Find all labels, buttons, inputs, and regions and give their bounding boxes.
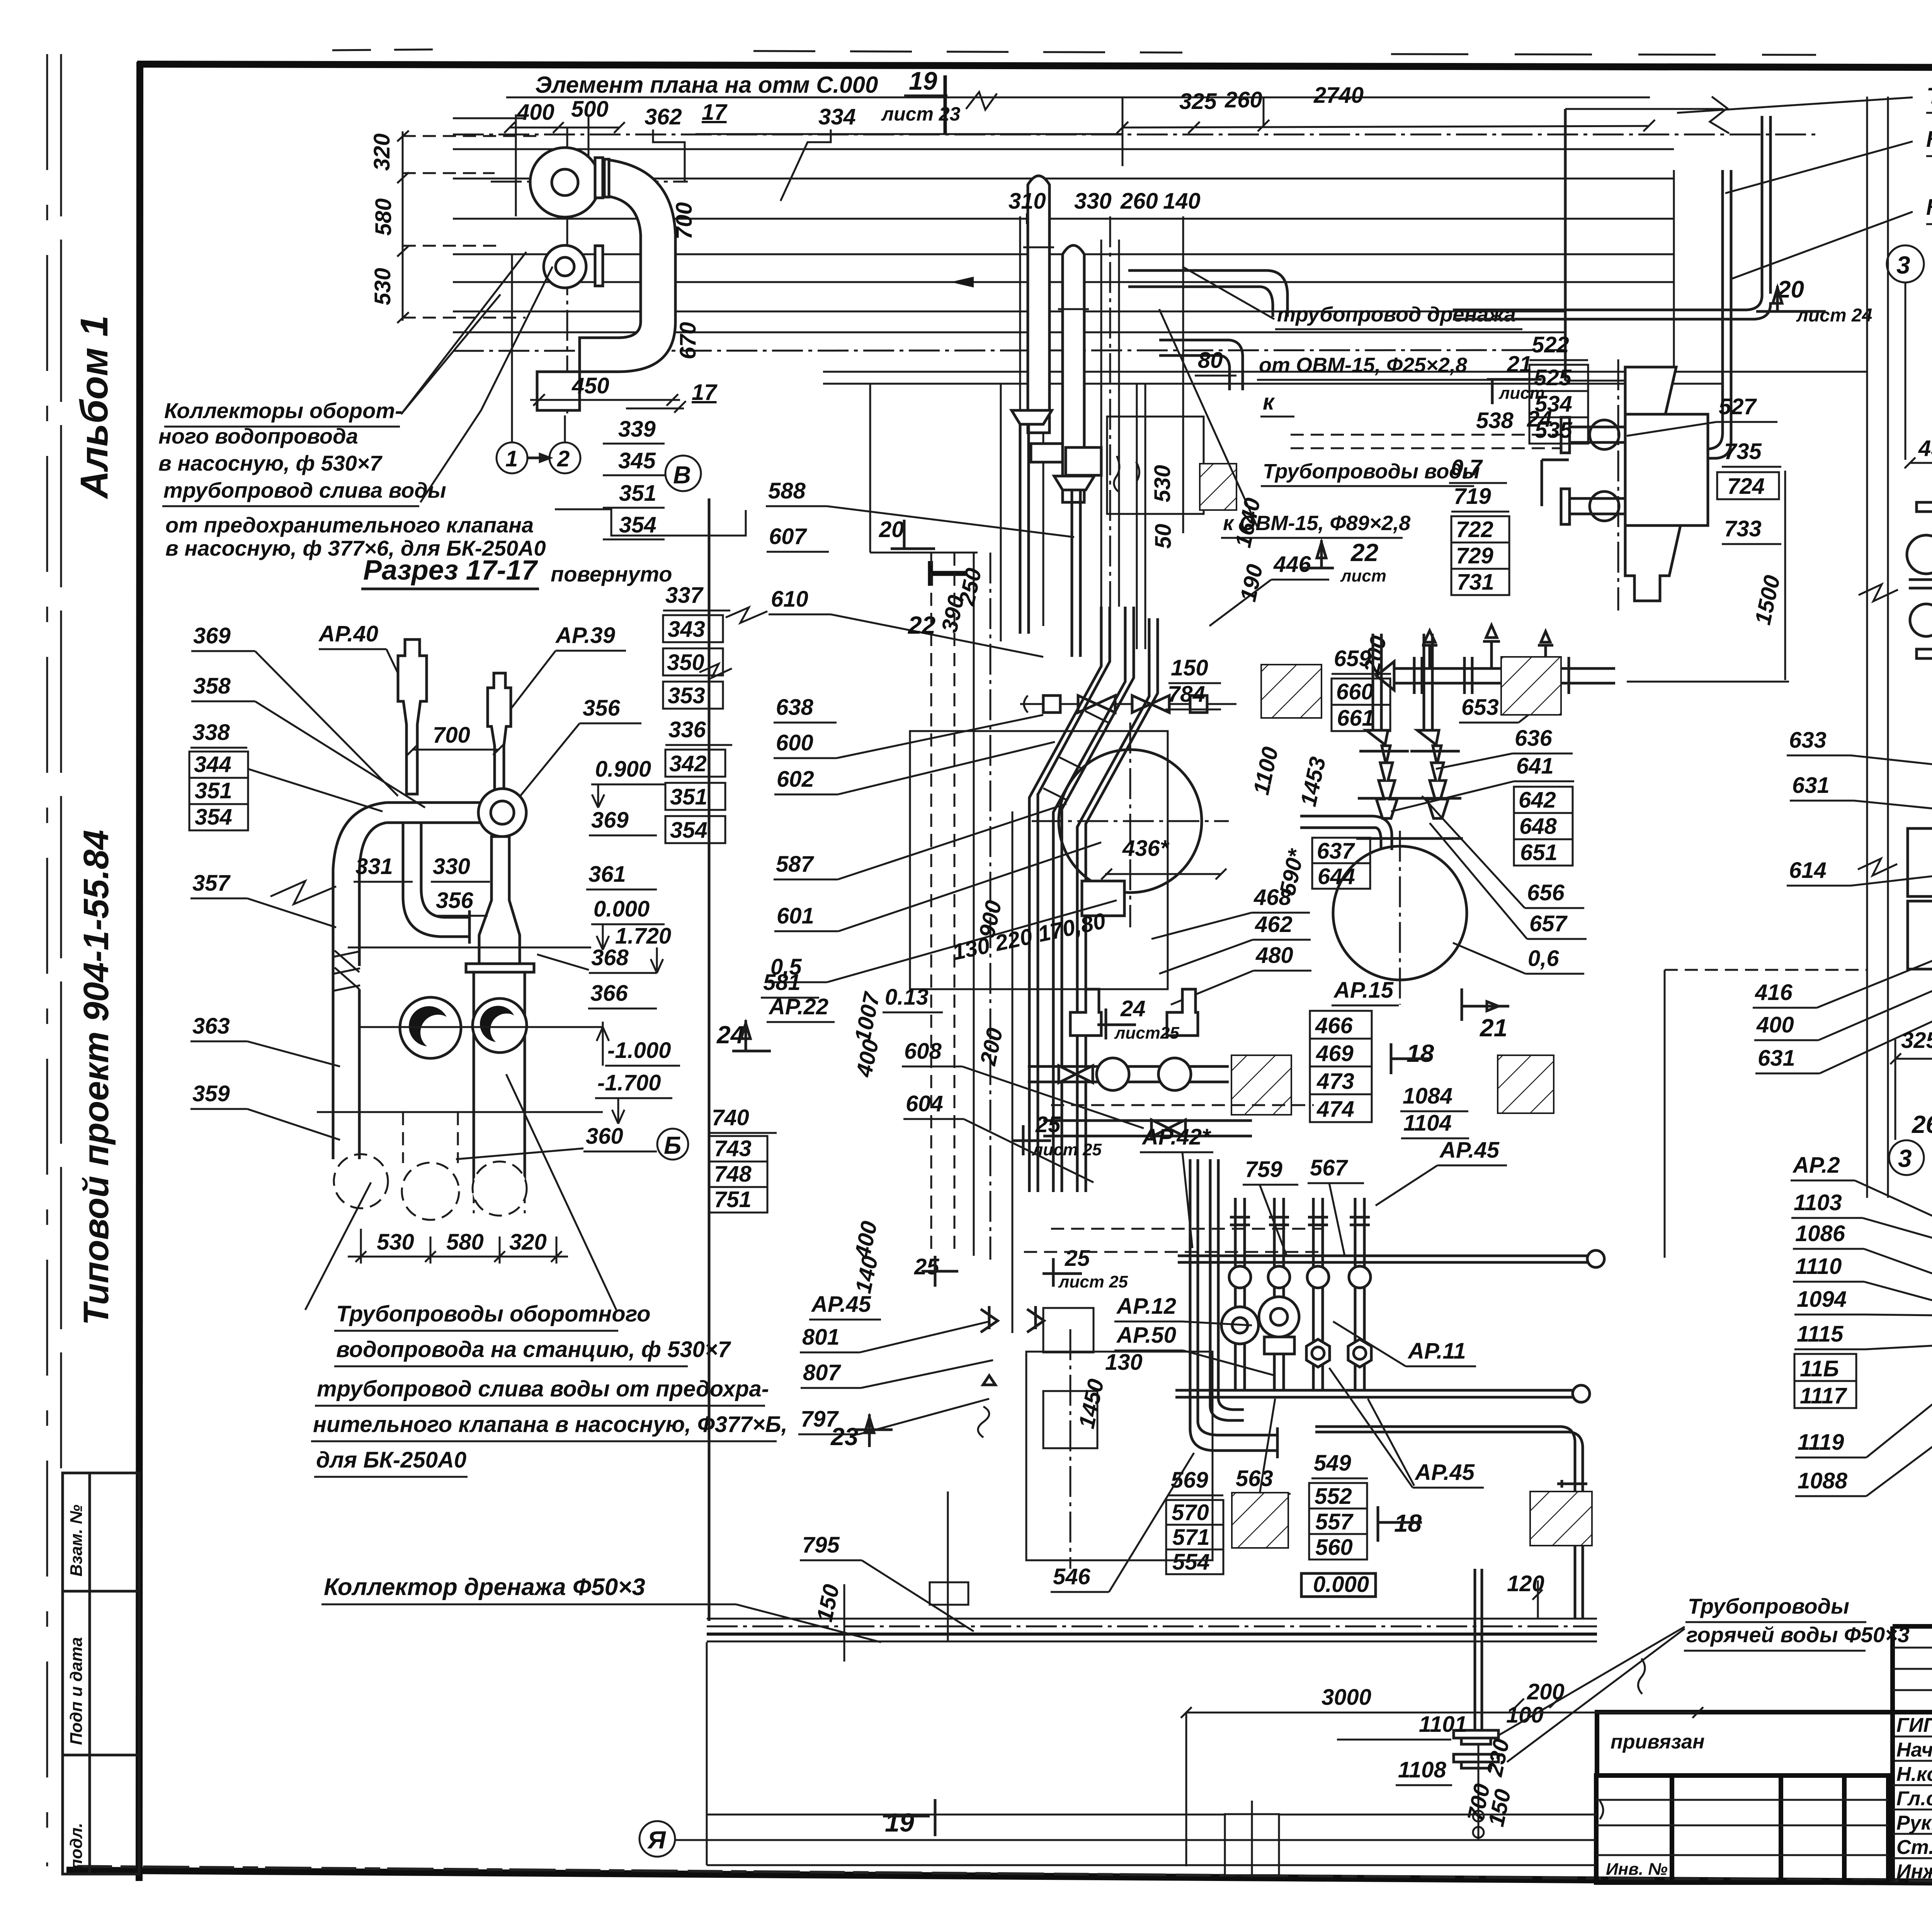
pump detail top-left [158, 128, 746, 560]
L pipe inner [1210, 1159, 1244, 1420]
manifold pipe2 [1175, 1390, 1577, 1397]
small valves on manifold [1422, 631, 1437, 668]
svg-text:26: 26 [1912, 1111, 1932, 1138]
drain collector band [707, 1618, 1597, 1620]
svg-text:Трубопроводы воды: Трубопроводы воды [1263, 460, 1480, 483]
grid bubble A [639, 1821, 675, 1857]
svg-text:привязан: привязан [1611, 1731, 1705, 1753]
section 17-17 [189, 555, 787, 1477]
svg-text:0.900: 0.900 [595, 757, 651, 782]
svg-text:18: 18 [1406, 1039, 1434, 1067]
riser capsule 1 [1028, 176, 1049, 433]
stamp upper strip rows [1893, 1647, 1932, 1649]
svg-text:17: 17 [702, 100, 728, 125]
svg-text:338: 338 [192, 720, 230, 745]
side rects [1908, 828, 1932, 896]
svg-text:325: 325 [1179, 89, 1217, 114]
svg-text:повернуто: повернуто [551, 562, 672, 586]
svg-text:331: 331 [355, 854, 393, 879]
svg-text:50: 50 [1151, 524, 1176, 549]
svg-text:670: 670 [675, 322, 701, 359]
svg-text:359: 359 [192, 1081, 230, 1106]
svg-text:631: 631 [1792, 773, 1830, 798]
dashed line runs [1291, 434, 1569, 436]
break mark [270, 881, 336, 904]
pipe left bottom [333, 1097, 359, 1159]
svg-text:656: 656 [1527, 880, 1565, 905]
svg-text:354: 354 [195, 804, 232, 830]
svg-text:от ОВМ-15, Ф25×2,8: от ОВМ-15, Ф25×2,8 [1259, 354, 1467, 377]
wavy W marks [1114, 456, 1139, 492]
lower ground line [317, 1111, 603, 1113]
svg-text:358: 358 [193, 673, 231, 699]
leader from 344 column [248, 769, 383, 811]
svg-text:522: 522 [1532, 332, 1569, 357]
svg-text:Трубопровод дренажа от ОВМ-: Трубопровод дренажа от ОВМ-15, Ф40×3 [1926, 83, 1932, 109]
hatch H0 [1200, 464, 1236, 510]
svg-text:642: 642 [1519, 787, 1556, 813]
svg-text:801: 801 [802, 1325, 840, 1350]
svg-text:588: 588 [768, 478, 806, 503]
svg-text:1115: 1115 [1797, 1321, 1844, 1347]
border top [137, 64, 1932, 69]
svg-text:740: 740 [712, 1105, 749, 1130]
dashed run mid [1051, 1104, 1314, 1106]
svg-text:351: 351 [670, 784, 707, 810]
svg-text:21: 21 [1507, 352, 1532, 377]
svg-text:357: 357 [192, 871, 231, 896]
mark 21 [1462, 988, 1509, 1021]
svg-text:подл.: подл. [67, 1823, 86, 1869]
svg-text:Коллекторы оборот-: Коллекторы оборот- [164, 398, 402, 423]
svg-text:651: 651 [1520, 840, 1558, 865]
header pipe horizontal [386, 803, 486, 823]
svg-text:АР.11: АР.11 [1407, 1338, 1466, 1364]
svg-text:Нач.отд.: Нач.отд. [1896, 1739, 1932, 1761]
svg-text:330: 330 [433, 854, 470, 879]
svg-text:337: 337 [665, 583, 704, 608]
svg-text:350: 350 [667, 650, 704, 675]
flange ticks on risers [1230, 1217, 1370, 1225]
title block [1596, 1582, 1932, 1883]
svg-text:360: 360 [586, 1124, 623, 1149]
line under title [506, 97, 1650, 99]
svg-text:2740: 2740 [1313, 83, 1364, 108]
svg-text:Я: Я [647, 1826, 666, 1854]
riser pipes thin [1100, 240, 1102, 607]
svg-text:190: 190 [1235, 562, 1268, 604]
grid bubble Z lower [1889, 1140, 1924, 1175]
svg-text:416: 416 [1755, 980, 1793, 1005]
wall step below band [555, 509, 746, 536]
OVM inlet pipes [1570, 427, 1625, 442]
left small valves column [981, 1306, 998, 1332]
svg-text:342: 342 [669, 751, 707, 776]
elbow flange [595, 158, 603, 198]
svg-text:20: 20 [879, 517, 904, 542]
leaders to labels [1677, 97, 1913, 113]
svg-text:641: 641 [1516, 753, 1554, 779]
grid bubble Z top [1887, 245, 1924, 282]
axis dash-dot [453, 134, 1816, 136]
svg-text:330: 330 [1074, 189, 1112, 214]
svg-text:1086: 1086 [1795, 1221, 1845, 1246]
big tank circle 2 [1333, 846, 1467, 980]
riser to OVM [1673, 170, 1731, 458]
small box on riser [930, 1582, 968, 1605]
crescent pipe right [473, 998, 527, 1053]
svg-text:1500: 1500 [1750, 573, 1785, 627]
axis bubbles 1 2 [497, 442, 527, 473]
svg-text:Б: Б [664, 1131, 681, 1159]
svg-text:580: 580 [446, 1230, 484, 1255]
svg-text:743: 743 [714, 1136, 752, 1161]
dim 450 [530, 399, 680, 401]
svg-text:19: 19 [885, 1808, 914, 1837]
right plan [1753, 97, 1932, 1198]
svg-text:-1.700: -1.700 [597, 1070, 661, 1095]
mid S pipe [403, 823, 469, 944]
svg-text:334: 334 [818, 104, 856, 129]
svg-text:600: 600 [776, 730, 813, 755]
svg-text:446: 446 [1273, 552, 1311, 577]
svg-text:0,6: 0,6 [1528, 946, 1559, 971]
svg-text:АР.22: АР.22 [768, 994, 828, 1019]
band right edges [1564, 109, 1567, 381]
svg-text:638: 638 [776, 695, 814, 720]
svg-text:АР.45: АР.45 [811, 1292, 871, 1317]
svg-text:АР.12: АР.12 [1116, 1294, 1176, 1319]
svg-text:356: 356 [583, 696, 621, 721]
svg-text:353: 353 [668, 683, 705, 708]
flange on riser [1557, 1480, 1587, 1488]
hex valves [1306, 1339, 1330, 1367]
svg-text:лист 23: лист 23 [881, 103, 961, 125]
svg-text:343: 343 [668, 617, 705, 642]
bottom zone [321, 1492, 1910, 1878]
svg-text:Инв. №: Инв. № [1606, 1860, 1668, 1879]
svg-text:в насосную, ф 530×7: в насосную, ф 530×7 [158, 451, 383, 475]
corner bracket [1542, 460, 1569, 506]
svg-text:24: 24 [1527, 406, 1552, 432]
svg-text:473: 473 [1316, 1069, 1354, 1094]
svg-text:719: 719 [1454, 484, 1491, 509]
svg-text:3000: 3000 [1321, 1685, 1371, 1710]
svg-text:140: 140 [1163, 189, 1201, 214]
svg-text:лист: лист [1340, 566, 1386, 585]
svg-text:325: 325 [1901, 1028, 1932, 1053]
svg-text:549: 549 [1314, 1451, 1351, 1476]
riser extensions down [1019, 424, 1022, 634]
svg-text:361: 361 [588, 862, 626, 887]
svg-text:724: 724 [1727, 474, 1765, 499]
svg-text:571: 571 [1172, 1525, 1210, 1550]
svg-text:661: 661 [1337, 706, 1374, 731]
dashed circles [334, 1154, 388, 1208]
labels 637 644 boxes [1312, 838, 1370, 863]
left margin [47, 54, 139, 1874]
svg-text:400: 400 [517, 100, 554, 125]
big left bend down [333, 803, 386, 1097]
riser capsule 2 [1063, 245, 1084, 502]
lower left table [1596, 1776, 1888, 1883]
pedestal rect [1225, 1814, 1279, 1875]
side rect on pipes [1082, 881, 1124, 916]
svg-text:0,7: 0,7 [1451, 455, 1483, 480]
svg-text:0.000: 0.000 [1313, 1572, 1369, 1597]
svg-text:729: 729 [1456, 543, 1493, 568]
top annotations [504, 66, 1932, 326]
svg-text:1: 1 [505, 446, 518, 471]
long pipes down left pair [1029, 607, 1110, 1192]
svg-text:400: 400 [851, 1037, 884, 1080]
svg-text:368: 368 [591, 945, 629, 970]
svg-text:436*: 436* [1122, 836, 1170, 861]
svg-text:748: 748 [714, 1162, 752, 1187]
svg-text:587: 587 [776, 852, 815, 877]
svg-text:22: 22 [1350, 539, 1378, 566]
svg-text:лист: лист [1498, 384, 1545, 403]
pump volute big [530, 148, 600, 217]
equipment boxes on risers [1031, 444, 1063, 462]
left stamp table [63, 1473, 139, 1874]
svg-text:Коллектор дренажа Ф50×3: Коллектор дренажа Ф50×3 [324, 1574, 645, 1600]
svg-text:320: 320 [509, 1230, 547, 1255]
svg-text:581: 581 [763, 970, 801, 995]
svg-text:608: 608 [904, 1039, 942, 1064]
svg-text:лист 25: лист 25 [1058, 1272, 1128, 1291]
elbow pipes to right [1128, 270, 1287, 317]
svg-text:351: 351 [619, 481, 656, 506]
svg-text:636: 636 [1515, 726, 1553, 751]
wide pipe down [474, 972, 525, 1190]
svg-text:735: 735 [1724, 439, 1762, 464]
svg-text:1100: 1100 [1248, 745, 1283, 797]
svg-text:351: 351 [195, 778, 232, 803]
svg-text:366: 366 [590, 981, 628, 1006]
pump axis horizontal [491, 181, 688, 183]
svg-text:320: 320 [369, 133, 395, 171]
svg-text:530: 530 [370, 268, 395, 305]
svg-text:1104: 1104 [1403, 1111, 1452, 1136]
svg-text:310: 310 [1009, 189, 1046, 214]
svg-text:0.000: 0.000 [594, 896, 650, 922]
svg-text:-1.000: -1.000 [607, 1038, 671, 1063]
svg-text:1108: 1108 [1398, 1757, 1446, 1782]
svg-text:для БК-250А0: для БК-250А0 [316, 1447, 466, 1473]
svg-text:АР.50: АР.50 [1116, 1323, 1176, 1348]
svg-text:751: 751 [714, 1187, 752, 1212]
pump volute small [544, 245, 586, 288]
svg-text:В: В [673, 461, 691, 489]
svg-text:500: 500 [571, 97, 609, 122]
riser crossing band [1474, 1569, 1476, 1730]
svg-text:1101: 1101 [1419, 1712, 1467, 1737]
lower U pipe [537, 372, 580, 410]
svg-text:25: 25 [1035, 1112, 1061, 1137]
svg-text:435: 435 [1918, 436, 1932, 461]
svg-text:Коллектор оборотного водопро: Коллектор оборотного водопровода станции… [1926, 127, 1932, 152]
svg-text:1119: 1119 [1798, 1430, 1844, 1455]
torn edge double line [1866, 97, 1868, 1198]
svg-text:354: 354 [670, 818, 707, 843]
svg-text:601: 601 [777, 903, 814, 929]
plan right wall [1664, 970, 1666, 1258]
svg-text:0.13: 0.13 [885, 985, 929, 1010]
border bottom (smudged) [66, 1870, 1932, 1887]
svg-text:1453: 1453 [1296, 755, 1330, 809]
svg-text:трубопровод слива воды: трубопровод слива воды [163, 478, 446, 502]
svg-text:369: 369 [591, 808, 629, 833]
svg-text:362: 362 [645, 104, 682, 129]
plan lower boundary [707, 1814, 1597, 1816]
flow arrow left [951, 277, 1016, 287]
svg-text:345: 345 [618, 448, 656, 473]
svg-text:602: 602 [777, 767, 814, 792]
svg-text:1007: 1007 [850, 989, 885, 1044]
room rect bottom [1026, 1352, 1213, 1560]
svg-text:1450: 1450 [1074, 1377, 1109, 1431]
svg-text:Альбом 1: Альбом 1 [73, 315, 116, 500]
leader lines [401, 252, 526, 414]
border left [139, 62, 140, 1881]
svg-text:Коллектор оборотного водопро: Коллектор оборотного водопровода станции… [1926, 195, 1932, 220]
svg-text:АР.42*: АР.42* [1141, 1124, 1211, 1150]
svg-text:480: 480 [1255, 943, 1293, 968]
svg-text:130: 130 [1105, 1350, 1143, 1375]
svg-text:3: 3 [1896, 251, 1910, 279]
svg-text:527: 527 [1719, 394, 1757, 419]
svg-text:466: 466 [1315, 1013, 1353, 1038]
svg-text:450: 450 [571, 373, 609, 398]
right stem pipe down [479, 837, 520, 964]
svg-text:474: 474 [1316, 1097, 1354, 1122]
collector band [453, 97, 1816, 381]
left wall drop [706, 1642, 708, 1865]
svg-text:700: 700 [433, 723, 470, 748]
svg-text:554: 554 [1172, 1549, 1210, 1575]
svg-text:1117: 1117 [1800, 1383, 1847, 1408]
top risers right pair [1453, 116, 1770, 319]
pump axis vertical [566, 128, 568, 413]
svg-text:260: 260 [1120, 189, 1158, 214]
svg-text:нительного клапана в насосную,: нительного клапана в насосную, Ф377×Б, [313, 1412, 787, 1437]
svg-text:23: 23 [830, 1423, 858, 1451]
svg-text:557: 557 [1315, 1509, 1354, 1534]
flange cluster [1454, 1730, 1498, 1738]
svg-text:Трубопроводы: Трубопроводы [1688, 1594, 1849, 1618]
lower small manifold [1043, 1121, 1252, 1136]
suction flange [595, 246, 603, 286]
svg-text:ного водопровода: ного водопровода [158, 424, 358, 448]
foundation square [910, 731, 1168, 989]
svg-text:400: 400 [850, 1219, 882, 1261]
svg-text:Гл.спец.: Гл.спец. [1896, 1787, 1932, 1810]
collector pipe lines [453, 148, 1674, 150]
svg-text:140: 140 [850, 1254, 883, 1296]
svg-text:19: 19 [909, 66, 937, 95]
svg-text:614: 614 [1789, 858, 1827, 883]
svg-text:631: 631 [1758, 1046, 1795, 1071]
svg-text:648: 648 [1519, 814, 1557, 839]
svg-text:водопровода на станцию, ф 530×: водопровода на станцию, ф 530×7 [336, 1337, 731, 1362]
svg-text:580: 580 [371, 198, 396, 236]
svg-text:260: 260 [1225, 87, 1262, 112]
manifold flanges [1413, 657, 1416, 694]
svg-text:339: 339 [618, 417, 656, 442]
svg-text:2: 2 [557, 446, 570, 471]
svg-text:АР.15: АР.15 [1333, 978, 1394, 1003]
svg-text:1103: 1103 [1794, 1190, 1842, 1215]
hatch H1 [1261, 665, 1321, 718]
svg-text:356: 356 [436, 888, 474, 913]
svg-text:570: 570 [1172, 1500, 1209, 1525]
stack feed pipes [1372, 634, 1374, 730]
discharge elbow [580, 159, 675, 372]
svg-text:400: 400 [1756, 1012, 1794, 1037]
horizontal manifold upper [1394, 668, 1615, 683]
flange plate [466, 964, 534, 972]
svg-text:80: 80 [1198, 348, 1223, 373]
svg-text:807: 807 [803, 1360, 842, 1385]
svg-text:150: 150 [812, 1582, 844, 1624]
svg-text:200: 200 [975, 1026, 1008, 1068]
svg-text:1088: 1088 [1798, 1468, 1848, 1493]
svg-text:100: 100 [1506, 1702, 1544, 1728]
margin rule lines [46, 54, 48, 1866]
svg-text:Трубопроводы оборотного: Трубопроводы оборотного [336, 1301, 651, 1327]
svg-text:11Б: 11Б [1800, 1356, 1839, 1381]
svg-text:1084: 1084 [1403, 1083, 1452, 1109]
branch valves [1229, 1266, 1251, 1288]
svg-text:Подп и дата: Подп и дата [67, 1637, 86, 1745]
attach box [1597, 1712, 1893, 1776]
svg-text:Взам. №: Взам. № [67, 1505, 86, 1577]
big tank circle 1 [1059, 750, 1202, 893]
svg-text:трубопровод слива воды от пред: трубопровод слива воды от предохра- [317, 1376, 769, 1401]
svg-text:552: 552 [1315, 1484, 1352, 1509]
dims 530 580 320 [360, 1229, 362, 1264]
svg-text:657: 657 [1529, 911, 1568, 936]
svg-text:759: 759 [1245, 1157, 1282, 1182]
band left tail lines [453, 117, 526, 119]
svg-text:633: 633 [1789, 728, 1827, 753]
svg-text:21: 21 [1480, 1014, 1507, 1042]
svg-text:1110: 1110 [1795, 1254, 1842, 1279]
svg-text:Разрез 17-17: Разрез 17-17 [363, 555, 538, 586]
L pipe left big [1190, 1159, 1277, 1451]
dashed pipes below ground [402, 1112, 404, 1163]
tree stack 2 [1417, 730, 1448, 818]
connecting pipes [1909, 580, 1932, 588]
grid bubble B2 [657, 1129, 688, 1160]
svg-text:722: 722 [1456, 517, 1493, 542]
valve pipes below circle1 [1070, 989, 1101, 1036]
svg-text:567: 567 [1310, 1155, 1349, 1180]
svg-text:610: 610 [771, 587, 808, 612]
svg-text:700: 700 [672, 202, 697, 240]
center line [359, 1026, 603, 1028]
svg-text:24: 24 [1120, 996, 1146, 1021]
svg-text:560: 560 [1315, 1535, 1353, 1560]
dim 700 [413, 749, 498, 751]
svg-text:733: 733 [1724, 516, 1762, 541]
svg-text:653: 653 [1461, 695, 1499, 720]
svg-text:150: 150 [1171, 655, 1208, 680]
hatch H5 H6 [1232, 1493, 1288, 1548]
branch risers [1235, 1198, 1364, 1390]
svg-text:637: 637 [1317, 838, 1355, 864]
